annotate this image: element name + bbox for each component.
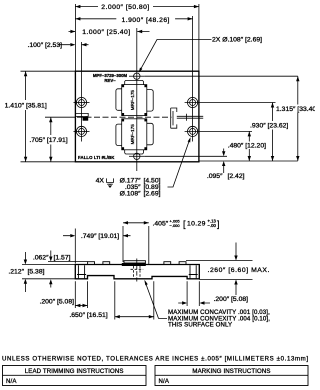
hole bottom-left counterbored xyxy=(74,130,90,132)
svg-text:Ø.108″: Ø.108″ xyxy=(120,191,142,198)
side view tab bump 3 xyxy=(164,262,171,265)
ext line plate bottom right xyxy=(199,160,297,162)
dimension 1.900 xyxy=(75,18,192,20)
ext line bottom-right hole right xyxy=(185,130,252,132)
svg-text:N/A: N/A xyxy=(6,378,17,385)
svg-text:.200″ [5.08]: .200″ [5.08] xyxy=(214,296,249,303)
ext line side left edge up xyxy=(74,229,76,264)
dimension .749 xyxy=(63,235,131,237)
side view hidden horizontal xyxy=(131,268,144,270)
dimension .405 xyxy=(123,222,149,224)
svg-text:THIS SURFACE ONLY: THIS SURFACE ONLY xyxy=(168,322,232,329)
svg-text:FALLO LTI #L/BK: FALLO LTI #L/BK xyxy=(78,155,115,160)
svg-text:1.315″ [33.40]: 1.315″ [33.40] xyxy=(276,106,315,113)
ext line top hole row right xyxy=(145,75,298,77)
package U1 right tab xyxy=(147,90,153,112)
dimension 1.315 right xyxy=(297,76,299,161)
package U2 right tab xyxy=(147,123,153,145)
ext line .405 left xyxy=(122,226,124,262)
svg-text:−.00: −.00 xyxy=(208,223,217,228)
side view tab bump 2 xyxy=(103,262,110,265)
ext line plate right edge up xyxy=(198,4,200,71)
side view package flange bar xyxy=(122,263,146,266)
counterbore leader xyxy=(168,139,191,188)
svg-text:[5.38]: [5.38] xyxy=(28,269,45,276)
dimension .930 xyxy=(272,103,274,162)
package U1 body xyxy=(122,85,147,116)
horizontal centerline dashed across plate xyxy=(77,116,172,118)
side view center axis xyxy=(136,259,138,282)
flatness note leader xyxy=(145,282,167,319)
svg-text:10.29: 10.29 xyxy=(187,220,206,227)
svg-text:1.000″ [25.40]: 1.000″ [25.40] xyxy=(82,29,130,36)
ext line plate top left xyxy=(21,70,76,72)
svg-text:2X Ø.108″ [2.69]: 2X Ø.108″ [2.69] xyxy=(212,37,262,44)
svg-text:.705″ [17.91]: .705″ [17.91] xyxy=(29,137,67,144)
svg-text:.480″ [12.20]: .480″ [12.20] xyxy=(228,143,266,150)
package U1 left tab xyxy=(116,89,122,110)
package U1 corner dots xyxy=(122,85,147,116)
hole bottom-right counterbored xyxy=(190,128,196,134)
svg-text:[2.42]: [2.42] xyxy=(228,173,245,180)
svg-text:MRF–175: MRF–175 xyxy=(130,124,135,145)
hole top-center tick xyxy=(129,75,145,77)
part number text HPF-3729-300M REV- xyxy=(78,73,127,160)
svg-text:MRF–175: MRF–175 xyxy=(130,90,135,111)
svg-text:1.900″ [48.26]: 1.900″ [48.26] xyxy=(122,17,170,24)
lead trimming instructions table xyxy=(3,366,147,386)
svg-text:[2.69]: [2.69] xyxy=(144,191,161,198)
side view tab bump 4 xyxy=(179,262,186,265)
svg-text:UNLESS OTHERWISE NOTED, TOLERA: UNLESS OTHERWISE NOTED, TOLERANCES ARE I… xyxy=(2,355,309,362)
hole top-right counterbored xyxy=(190,100,196,106)
svg-text:−.000: −.000 xyxy=(170,223,181,228)
vertical centerline right hole column xyxy=(192,16,194,142)
svg-text:.212″: .212″ xyxy=(8,269,24,276)
side view right foot hole xyxy=(189,265,198,278)
ext line bottom hole row right xyxy=(145,155,227,157)
dimension .480 xyxy=(248,131,250,161)
svg-text:.650″ [16.51]: .650″ [16.51] xyxy=(69,312,107,319)
svg-text:.100″ [2.53]: .100″ [2.53] xyxy=(27,42,62,49)
svg-text:.200″ [5.08]: .200″ [5.08] xyxy=(39,299,74,306)
svg-text:.749″ [19.01]: .749″ [19.01] xyxy=(81,233,119,240)
side view package cap xyxy=(124,261,145,263)
hole bottom-center tick xyxy=(129,155,145,157)
svg-text:.095″: .095″ xyxy=(207,173,223,180)
package U2 cap xyxy=(125,150,144,154)
hole bottom-center circle xyxy=(134,153,140,159)
svg-text:.260″ [6.60] MAX.: .260″ [6.60] MAX. xyxy=(208,267,270,274)
package U2 body xyxy=(122,119,147,150)
vertical centerline center column xyxy=(136,28,138,171)
svg-text:4X: 4X xyxy=(96,177,105,184)
hole top-center circle xyxy=(134,73,140,79)
package U1 cap xyxy=(125,80,144,84)
svg-text:REV–: REV– xyxy=(104,78,116,83)
svg-text:1.410″ [35.81]: 1.410″ [35.81] xyxy=(5,102,47,109)
marking instructions table xyxy=(155,366,308,386)
dimension 1.410 left xyxy=(25,71,27,162)
ext line plate left edge up xyxy=(74,4,76,71)
clamp bracket xyxy=(171,108,177,128)
svg-text:[: [ xyxy=(183,219,186,229)
vertical centerline left hole column xyxy=(81,42,83,142)
ext lines side left xyxy=(22,262,88,279)
svg-text:N/A: N/A xyxy=(159,378,170,385)
ext lines below side view xyxy=(75,281,199,319)
svg-text:.062″: .062″ xyxy=(33,255,49,262)
plan view plate outline xyxy=(75,71,198,162)
side view left foot hole xyxy=(77,265,86,278)
dimension 1.000 xyxy=(69,31,150,33)
package U2 corner dots xyxy=(122,119,147,150)
ext lines .260 right xyxy=(186,261,253,280)
svg-text:[1.57]: [1.57] xyxy=(54,255,71,262)
clamp bar double line xyxy=(177,114,203,121)
ext line plate bottom left xyxy=(21,161,76,163)
svg-text:MARKING INSTRUCTIONS: MARKING INSTRUCTIONS xyxy=(192,368,270,375)
hole top-left counterbored xyxy=(74,102,90,104)
ext line top-right hole right xyxy=(185,102,276,104)
svg-text:]: ] xyxy=(217,219,220,229)
side view outline xyxy=(75,265,199,279)
left edge notch filled tab xyxy=(83,117,89,121)
side view tab bump 1 xyxy=(88,262,95,265)
dimension 2.000 xyxy=(75,6,198,8)
svg-text:2.000″ [50.80]: 2.000″ [50.80] xyxy=(101,4,149,11)
svg-text:.930″ [23.62]: .930″ [23.62] xyxy=(250,122,288,129)
dimension .095 xyxy=(223,149,225,174)
horizontal centerline solid left part (.705 ext) xyxy=(45,116,75,118)
ext line .405 right xyxy=(148,226,150,264)
dimension .705 xyxy=(50,117,52,162)
left edge notch xyxy=(75,113,88,116)
dimension .200 right xyxy=(178,302,210,304)
dimension .100 xyxy=(58,44,89,46)
svg-text:.405″: .405″ xyxy=(153,220,169,227)
svg-text:LEAD TRIMMING INSTRUCTIONS: LEAD TRIMMING INSTRUCTIONS xyxy=(25,368,124,375)
side view hidden hole lines xyxy=(134,266,140,278)
package U2 left tab xyxy=(116,124,122,146)
